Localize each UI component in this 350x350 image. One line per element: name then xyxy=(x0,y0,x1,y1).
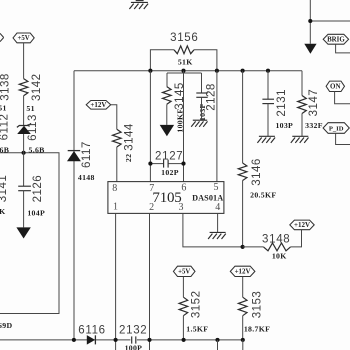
wire 3145 bottom xyxy=(166,104,168,125)
wire 3156 right xyxy=(194,50,217,71)
svg-text:3146: 3146 xyxy=(251,158,263,186)
node bus pin1 xyxy=(114,338,118,342)
svg-text:5: 5 xyxy=(214,182,219,193)
svg-text:8: 8 xyxy=(112,183,117,194)
node bus pin2 xyxy=(147,338,151,342)
diode zener 6113 xyxy=(17,123,31,134)
wire 3146 bottom xyxy=(242,181,244,247)
port +12V bottom xyxy=(230,266,255,276)
resistor 3152 xyxy=(179,297,188,316)
wire pin5 drop xyxy=(216,71,218,182)
svg-text:4148: 4148 xyxy=(78,173,95,182)
wire 3148 left xyxy=(243,246,264,248)
svg-text:1: 1 xyxy=(113,202,118,213)
svg-text:2132: 2132 xyxy=(119,324,147,336)
svg-text:22: 22 xyxy=(124,154,133,162)
wire 3153 bottom xyxy=(242,316,244,340)
node rail pin7 xyxy=(148,69,152,73)
wire 2126 top xyxy=(23,153,25,186)
node rail 2131 xyxy=(266,69,270,73)
wire 2127 right xyxy=(168,163,183,165)
wire 3152 bottom xyxy=(182,316,184,340)
wire BRIG xyxy=(336,44,350,53)
wire 3144 bottom xyxy=(116,147,118,182)
ground 2128 xyxy=(191,120,207,127)
wire pin6 drop xyxy=(183,71,185,182)
wire 3148 right xyxy=(291,230,302,247)
svg-text:102P: 102P xyxy=(161,168,179,177)
port +5V bottom xyxy=(173,266,195,276)
svg-text:7105: 7105 xyxy=(152,190,181,206)
svg-text:ON: ON xyxy=(330,83,341,91)
svg-text:+12V: +12V xyxy=(90,101,106,109)
svg-text:6117: 6117 xyxy=(81,141,93,168)
svg-text:6112: 6112 xyxy=(0,114,10,141)
svg-text:100P: 100P xyxy=(125,343,143,350)
svg-text:BRIG: BRIG xyxy=(327,37,345,44)
capacitor 2126 xyxy=(18,186,31,191)
resistor 3142 xyxy=(19,79,28,96)
svg-text:51: 51 xyxy=(0,104,7,113)
wire 3145 top xyxy=(166,73,168,87)
resistor 3148 xyxy=(264,243,291,251)
wire P_ID xyxy=(336,133,350,144)
node bus 3153 xyxy=(241,338,245,342)
svg-text:3141: 3141 xyxy=(0,175,9,203)
wire 2127 left xyxy=(150,163,163,165)
wire 2128 top xyxy=(201,73,203,93)
wire main rail xyxy=(74,70,302,72)
svg-text:1.5KF: 1.5KF xyxy=(186,324,208,333)
node rail pin5 xyxy=(215,69,219,73)
port partial left edge xyxy=(0,33,4,41)
op-amp U1 7105 xyxy=(108,182,224,214)
node rail 3146 xyxy=(241,69,245,73)
node bus left xyxy=(72,338,76,342)
wire 3147 top xyxy=(301,71,303,96)
wire ON xyxy=(335,92,350,104)
svg-text:2126: 2126 xyxy=(32,175,44,203)
svg-text:+5V: +5V xyxy=(178,269,190,276)
wire left vertical bus xyxy=(73,71,75,340)
svg-text:3145: 3145 xyxy=(174,82,186,110)
svg-text:5.6B: 5.6B xyxy=(29,145,45,154)
svg-text:3152: 3152 xyxy=(191,291,203,319)
svg-text:2128: 2128 xyxy=(206,83,218,111)
svg-text:10K: 10K xyxy=(272,252,287,261)
resistor 3153 xyxy=(238,297,247,316)
resistor 3146 xyxy=(238,163,247,181)
wire 3147 bottom xyxy=(301,114,303,137)
wire 3153 top xyxy=(242,277,244,298)
node top right xyxy=(308,19,312,23)
wire stub down 1 xyxy=(217,340,219,350)
svg-text:DAS01A: DAS01A xyxy=(192,193,223,202)
ground pin4 xyxy=(208,232,226,239)
svg-text:103P: 103P xyxy=(198,103,207,121)
wire 3142 bottom xyxy=(23,96,25,126)
wire 3152 top xyxy=(182,277,184,298)
ground 3147 xyxy=(291,136,309,143)
svg-text:K: K xyxy=(0,207,6,216)
node 2127 right xyxy=(181,162,185,166)
port ON xyxy=(326,81,344,91)
svg-text:2131: 2131 xyxy=(276,89,288,117)
diode 6117 xyxy=(67,151,81,162)
wire 2128 bottom xyxy=(201,97,203,120)
svg-text:20.5KF: 20.5KF xyxy=(250,191,276,200)
svg-text:2127: 2127 xyxy=(155,151,183,163)
capacitor 2128 xyxy=(196,93,207,97)
wire top right branch xyxy=(310,20,350,22)
resistor 3144 xyxy=(113,129,122,147)
svg-text:6116: 6116 xyxy=(78,324,106,336)
wire branch bar xyxy=(167,72,202,74)
node bus 3152 xyxy=(182,338,186,342)
ground top xyxy=(136,0,144,2)
wire 2131 bottom xyxy=(267,104,269,137)
port +12V mid xyxy=(86,101,111,110)
wire pin1 drop xyxy=(115,213,117,350)
svg-text:69D: 69D xyxy=(0,321,12,330)
wire top right vertical xyxy=(309,0,311,44)
wire 3144 top xyxy=(111,105,117,130)
svg-text:3138: 3138 xyxy=(0,73,11,101)
wire 6113 bottom xyxy=(23,134,25,153)
arrow supply 2126 xyxy=(16,227,30,238)
wire 3142 top xyxy=(23,43,25,79)
svg-text:6113: 6113 xyxy=(27,114,39,141)
svg-text:51: 51 xyxy=(26,104,34,113)
svg-text:332F: 332F xyxy=(305,121,323,130)
node 5.6B junction xyxy=(22,151,26,155)
wire 2131 top xyxy=(267,71,269,99)
svg-text:+12V: +12V xyxy=(235,268,251,276)
wire pin2 drop xyxy=(149,213,151,350)
svg-text:103P: 103P xyxy=(275,121,293,130)
port +5V top xyxy=(13,33,34,43)
wire 2126 bottom xyxy=(23,191,25,228)
svg-text:3156: 3156 xyxy=(170,32,198,44)
wire 3146 top xyxy=(242,71,244,163)
node pin3 3146 xyxy=(241,245,245,249)
capacitor 2127 xyxy=(164,160,169,168)
wire pin7 drop xyxy=(149,71,151,182)
svg-text:3142: 3142 xyxy=(31,73,43,101)
svg-text:51K: 51K xyxy=(178,57,193,66)
port P_ID xyxy=(323,123,349,134)
svg-text:+12V: +12V xyxy=(294,221,310,229)
capacitor 2132 xyxy=(132,336,136,343)
svg-text:3147: 3147 xyxy=(308,89,320,117)
wire 5.6B net xyxy=(0,153,59,314)
svg-text:4: 4 xyxy=(215,202,220,213)
svg-text:6: 6 xyxy=(181,183,186,194)
svg-text:3148: 3148 xyxy=(262,234,290,246)
wire pin3 route xyxy=(183,213,243,247)
wire pin4 drop xyxy=(217,213,219,232)
svg-text:P_ID: P_ID xyxy=(329,125,344,132)
svg-text:18.7KF: 18.7KF xyxy=(244,324,270,333)
port +12V 3148 xyxy=(290,220,314,230)
wire 3156 left xyxy=(150,50,174,71)
diode 6116 xyxy=(87,335,96,345)
arrow supply top right xyxy=(304,44,316,54)
svg-text:5.6B: 5.6B xyxy=(0,145,9,154)
port BRIG xyxy=(323,34,348,44)
capacitor 2131 xyxy=(262,99,274,103)
node 2127 left xyxy=(148,162,152,166)
svg-text:104P: 104P xyxy=(27,208,45,217)
node rail pin6 xyxy=(181,69,185,73)
svg-text:3153: 3153 xyxy=(252,291,264,319)
svg-text:+5V: +5V xyxy=(18,35,30,42)
svg-text:3144: 3144 xyxy=(123,123,135,151)
node bus stub1 xyxy=(215,338,219,342)
resistor 3147 xyxy=(298,96,307,114)
resistor 3145 xyxy=(163,87,172,105)
arrow supply 3145 xyxy=(160,125,174,136)
wire bottom bus xyxy=(0,339,243,341)
wire stub down 2 xyxy=(242,340,244,350)
resistor 3156 xyxy=(174,46,194,54)
ground 2131 xyxy=(257,136,275,143)
svg-text:100KF: 100KF xyxy=(175,109,184,133)
